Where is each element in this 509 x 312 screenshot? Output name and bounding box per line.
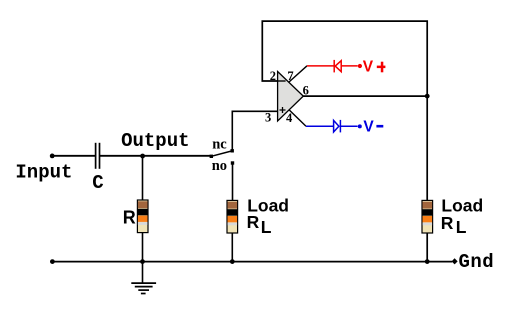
svg-text:4: 4 — [286, 111, 293, 125]
svg-text:no: no — [212, 158, 227, 174]
node dot RL-bus — [230, 259, 235, 264]
svg-text:7: 7 — [287, 69, 293, 83]
wire pin2 with feedback loop — [262, 21, 427, 96]
diode D1 — [333, 60, 335, 73]
node dot R-bus — [140, 259, 145, 264]
V- terminal dot — [358, 124, 362, 128]
svg-text:V: V — [363, 58, 374, 75]
wire output node down to right load — [426, 96, 428, 200]
op-amp minus input mark — [278, 80, 286, 82]
pin7 lead diagonal — [289, 66, 307, 82]
svg-text:R: R — [441, 213, 454, 233]
svg-text:V: V — [363, 119, 374, 136]
V+ terminal dot — [358, 64, 362, 68]
svg-text:2: 2 — [270, 69, 276, 83]
node dot output — [140, 154, 145, 159]
load resistor RL middle body — [227, 200, 238, 233]
svg-text:R: R — [247, 212, 260, 232]
svg-text:Input: Input — [15, 162, 72, 184]
V- supply wire — [306, 120, 358, 132]
wire right load to ground bus — [426, 233, 428, 262]
plus sign of V+ — [377, 62, 386, 73]
pin4 lead diagonal — [289, 110, 306, 127]
wire resistor R to ground bus — [142, 233, 144, 262]
wire load RL to ground bus — [231, 233, 233, 262]
load resistor RL right body — [422, 200, 433, 233]
node dot opamp out — [425, 94, 430, 99]
node dot input — [50, 154, 55, 159]
svg-text:6: 6 — [303, 84, 309, 98]
svg-text:3: 3 — [265, 110, 271, 124]
wire no contact down to load RL — [232, 164, 234, 201]
op-amp plus mark — [280, 107, 286, 113]
switch blade pole to nc — [211, 151, 231, 156]
svg-text:Output: Output — [121, 130, 189, 152]
wire input to capacitor — [52, 155, 95, 157]
svg-text:Gnd: Gnd — [459, 251, 495, 273]
gnd terminal dot — [452, 258, 458, 264]
diode D2 — [334, 120, 339, 132]
resistor R body — [137, 200, 148, 233]
svg-text:R: R — [123, 207, 136, 227]
V+ supply wire — [307, 60, 358, 73]
svg-text:L: L — [261, 217, 272, 237]
switch no contact — [231, 161, 234, 164]
minus sign of V- — [376, 125, 383, 128]
wire output node down to resistor R — [142, 156, 144, 201]
wire opamp output pin6 — [303, 95, 427, 97]
wire gnd terminal — [427, 261, 452, 263]
node dot right load bus — [425, 259, 430, 264]
svg-text:C: C — [92, 172, 103, 194]
switch nc contact — [231, 149, 234, 152]
wire capacitor to switch pole — [100, 155, 210, 157]
wire nc contact up to pin3 — [232, 111, 277, 150]
svg-text:nc: nc — [212, 137, 227, 153]
op-amp U1 — [278, 72, 304, 122]
capacitor C plates — [95, 143, 97, 169]
node dot bus left — [50, 259, 55, 264]
ground symbol bars — [131, 282, 156, 284]
ground bus wire — [52, 261, 452, 263]
svg-text:L: L — [456, 217, 467, 237]
switch pole contact — [210, 155, 213, 158]
ground symbol stub — [142, 262, 144, 283]
